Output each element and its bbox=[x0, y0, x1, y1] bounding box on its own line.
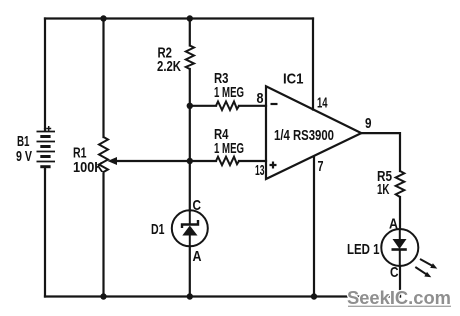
wire pin 7 to bottom rail bbox=[313, 158, 315, 297]
wire pin 14 to top rail bbox=[312, 19, 314, 110]
svg-text:D1: D1 bbox=[151, 221, 165, 238]
wire R3 left lead bbox=[190, 105, 216, 107]
op-amp minus sign bbox=[271, 103, 278, 105]
wire R4 left lead bbox=[190, 160, 216, 162]
node R2 / R3 bbox=[187, 103, 193, 109]
svg-text:C: C bbox=[390, 264, 399, 281]
resistor R1 wiper arrowhead bbox=[108, 157, 118, 165]
wire R4 right lead to pin 13 bbox=[239, 160, 266, 162]
wire pin 9 output bbox=[361, 133, 400, 171]
wire R1 branch upper bbox=[102, 19, 104, 138]
resistor R5 label bbox=[377, 168, 392, 198]
op-amp plus sign bbox=[270, 162, 277, 169]
svg-text:A: A bbox=[193, 248, 202, 265]
battery B1 9V plates bbox=[37, 128, 56, 170]
svg-text:LED 1: LED 1 bbox=[347, 241, 380, 258]
resistor R2 2.2K zigzag bbox=[186, 46, 194, 70]
node top rail / R2 bbox=[187, 15, 193, 21]
svg-text:SeekIC.com: SeekIC.com bbox=[347, 287, 451, 308]
svg-text:1 MEG: 1 MEG bbox=[214, 84, 244, 101]
node top rail / R1 bbox=[100, 15, 106, 21]
svg-text:13: 13 bbox=[255, 162, 265, 179]
LED1 emission arrow lower bbox=[415, 267, 431, 277]
svg-text:7: 7 bbox=[318, 158, 324, 175]
LED1 emission arrow upper bbox=[420, 259, 437, 269]
wire R1 wiper arm bbox=[113, 160, 190, 162]
svg-text:C: C bbox=[193, 197, 202, 214]
wire R2 bottom lead to node bbox=[189, 69, 191, 106]
svg-text:A: A bbox=[389, 216, 398, 233]
battery B1 label bbox=[16, 133, 32, 165]
resistor R3 1 MEG zigzag bbox=[216, 102, 239, 111]
wire R5 to LED anode bbox=[399, 197, 401, 229]
wire D1 bottom lead bbox=[189, 247, 191, 297]
wire R2 top lead bbox=[189, 19, 191, 46]
diode D1 lead inside circle top bbox=[189, 211, 191, 225]
resistor R4 label bbox=[214, 126, 244, 157]
node bottom rail / D1 bbox=[187, 293, 193, 299]
LED1 anode triangle bbox=[393, 239, 407, 249]
node wiper / R4 / D1 bbox=[187, 158, 193, 164]
LED1 lead inside bottom bbox=[399, 250, 401, 266]
svg-text:1 MEG: 1 MEG bbox=[214, 140, 244, 157]
resistor R1 100K (potentiometer) zigzag bbox=[99, 137, 108, 174]
svg-text:IC1: IC1 bbox=[283, 71, 304, 88]
svg-text:1K: 1K bbox=[377, 181, 390, 198]
diode D1 anode triangle bbox=[182, 226, 197, 236]
LED1 circle bbox=[381, 229, 418, 266]
wire D1 top lead bbox=[189, 161, 191, 211]
wire R3 right lead to pin 8 bbox=[239, 105, 266, 107]
svg-text:100K: 100K bbox=[73, 159, 104, 176]
resistor R5 1K zigzag bbox=[396, 171, 405, 197]
svg-text:14: 14 bbox=[317, 95, 328, 112]
wire R1 branch lower bbox=[102, 174, 104, 297]
wire left rail lower bbox=[44, 170, 46, 297]
resistor R3 label bbox=[214, 70, 244, 101]
resistor R1 label bbox=[73, 145, 104, 177]
node bottom rail / pin 7 bbox=[311, 293, 317, 299]
resistor R2 label bbox=[157, 45, 181, 76]
diode D1 zener cathode bar bbox=[182, 220, 198, 228]
LED1 lead inside top bbox=[399, 229, 401, 239]
svg-text:9: 9 bbox=[365, 115, 372, 132]
svg-text:1/4 RS3900: 1/4 RS3900 bbox=[274, 127, 334, 144]
svg-text:9 V: 9 V bbox=[16, 148, 32, 165]
diode D1 (zener) circle bbox=[172, 210, 208, 246]
diode D1 lead inside circle bottom bbox=[189, 236, 191, 247]
resistor R4 1 MEG zigzag bbox=[216, 157, 239, 166]
wire LED cathode to bottom rail bbox=[399, 266, 401, 297]
wire bottom rail bbox=[45, 295, 400, 297]
watermark SeekIC.com bbox=[347, 287, 451, 308]
wire node R2/R3 down to wiper node bbox=[189, 106, 191, 161]
battery B1 plus mark bbox=[46, 126, 51, 131]
node bottom rail / R1 bbox=[100, 293, 106, 299]
svg-text:2.2K: 2.2K bbox=[157, 58, 181, 75]
svg-text:8: 8 bbox=[257, 90, 264, 107]
op-amp IC1 triangle bbox=[266, 86, 361, 179]
wire top rail bbox=[45, 17, 313, 19]
LED1 cathode bar bbox=[392, 248, 407, 251]
wire left rail upper (battery +) bbox=[44, 19, 46, 129]
